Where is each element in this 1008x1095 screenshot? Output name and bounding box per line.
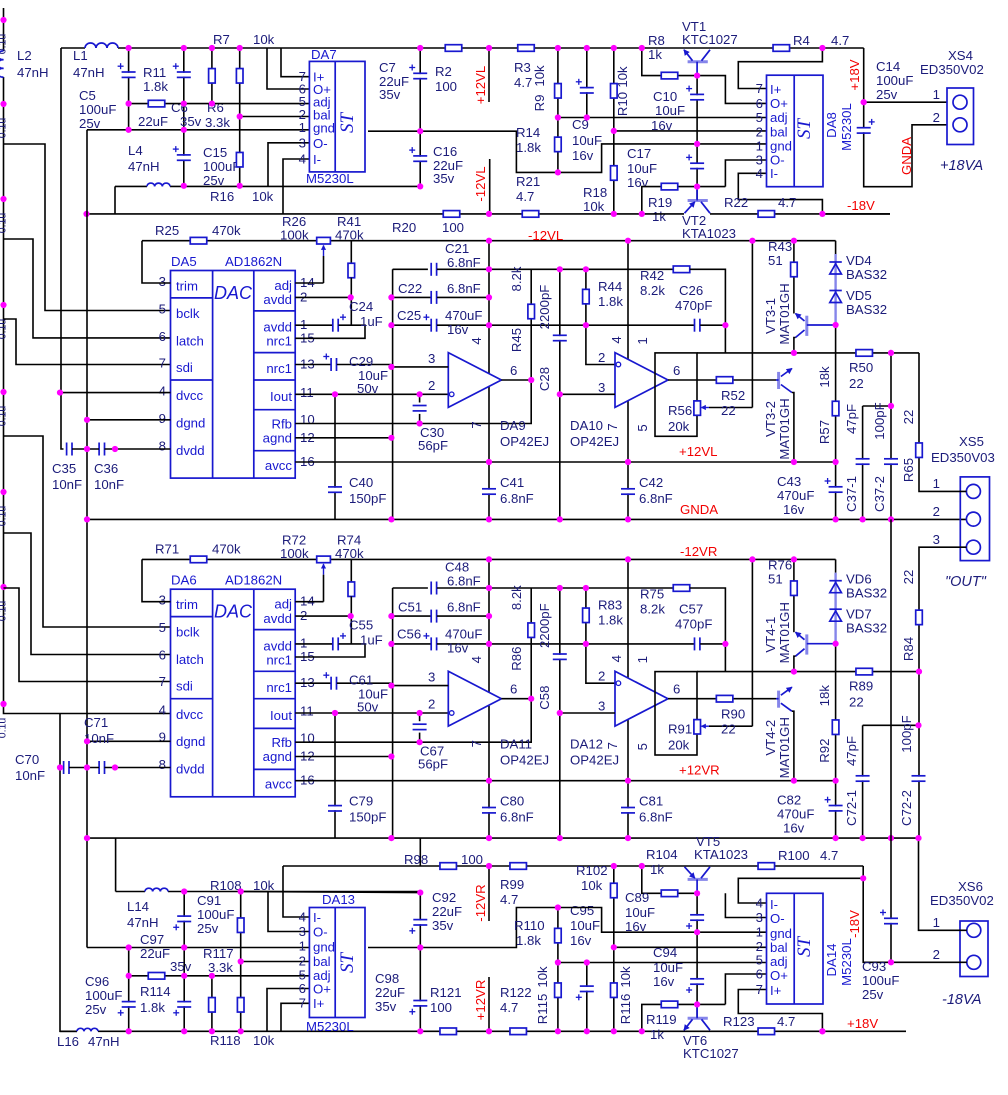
svg-text:GNDA: GNDA <box>680 502 718 517</box>
label DA6 part <box>225 573 282 588</box>
wire XS4 pin1 wire <box>864 101 947 103</box>
wire op2 output row <box>668 698 776 700</box>
label R117 label <box>203 946 234 975</box>
svg-text:4: 4 <box>469 656 484 663</box>
wire C57 right <box>700 643 725 645</box>
wire L4 to raw-V riser <box>114 186 116 214</box>
capacitor C36 <box>99 443 104 456</box>
junction dots channel DA5 <box>332 238 894 523</box>
svg-text:470k: 470k <box>212 223 241 238</box>
wire C6 C15 column <box>183 48 185 186</box>
label R9 label <box>532 65 547 111</box>
svg-text:22: 22 <box>721 722 736 737</box>
svg-text:22uF: 22uF <box>432 904 462 919</box>
svg-text:470uF: 470uF <box>445 308 482 323</box>
svg-text:C96: C96 <box>85 974 109 989</box>
svg-text:0.1u: 0.1u <box>0 601 9 622</box>
transistor VT3-2 <box>776 369 792 393</box>
svg-text:6: 6 <box>510 363 517 378</box>
capacitor C92 <box>409 920 427 934</box>
svg-text:10k: 10k <box>581 878 603 893</box>
svg-text:35v: 35v <box>433 171 455 186</box>
svg-text:R9: R9 <box>532 95 547 112</box>
wire R65 column <box>919 353 947 492</box>
wire R98 row riser <box>419 838 421 866</box>
svg-text:2: 2 <box>428 697 435 712</box>
svg-text:10uF: 10uF <box>655 103 685 118</box>
label VD7 label <box>846 607 887 636</box>
svg-text:DA14: DA14 <box>824 944 839 977</box>
wire XS5 pin1 stub <box>947 490 966 492</box>
label R99 label <box>500 877 524 907</box>
connector XS5 <box>960 477 989 561</box>
svg-text:MAT01GH: MAT01GH <box>777 398 792 459</box>
svg-text:10uF: 10uF <box>570 918 600 933</box>
capacitor C72-1 <box>856 776 870 781</box>
wire op2 V- column DA12 <box>627 559 629 677</box>
svg-text:gnd: gnd <box>770 926 792 941</box>
wire VT3-1 collector <box>794 338 796 353</box>
svg-text:R91: R91 <box>668 722 692 737</box>
wire DA5 trim wire <box>142 241 171 283</box>
label GNDA xs4 <box>899 137 914 175</box>
svg-text:ST: ST <box>794 936 815 958</box>
wire VT4-1 collector <box>794 656 796 671</box>
svg-text:1k: 1k <box>650 862 664 877</box>
svg-text:R114: R114 <box>140 984 171 999</box>
connector XS4 <box>947 88 974 145</box>
potentiometer R26 <box>317 237 331 256</box>
wire R19 row <box>642 187 726 214</box>
svg-text:5: 5 <box>756 110 763 125</box>
label C7 label <box>379 60 409 102</box>
svg-text:-12VL: -12VL <box>528 228 563 243</box>
wire latch L branch <box>4 239 171 338</box>
resistor R104 <box>661 890 678 897</box>
svg-text:C91: C91 <box>197 893 221 908</box>
svg-text:5: 5 <box>159 620 166 635</box>
svg-text:0.1u: 0.1u <box>0 34 9 55</box>
svg-text:0.1u: 0.1u <box>0 718 9 739</box>
svg-text:C92: C92 <box>432 890 456 905</box>
svg-text:R122: R122 <box>500 985 532 1000</box>
svg-text:VD7: VD7 <box>846 607 872 622</box>
label DA10 name <box>570 418 619 449</box>
svg-text:R86: R86 <box>509 647 524 671</box>
svg-text:0.1u: 0.1u <box>0 406 9 427</box>
label L1 label <box>73 48 105 80</box>
svg-text:47pF: 47pF <box>844 404 859 434</box>
label bus cap label 2 <box>0 118 9 139</box>
label C16 label <box>433 144 463 186</box>
svg-text:C56: C56 <box>397 627 421 642</box>
svg-text:R84: R84 <box>901 637 916 661</box>
wire op2 V+ column DA10 <box>627 401 629 519</box>
capacitor C80 <box>482 808 496 813</box>
svg-text:R14: R14 <box>516 125 540 140</box>
svg-text:R92: R92 <box>817 739 832 763</box>
svg-text:9: 9 <box>159 730 166 745</box>
resistor R119 <box>661 1001 678 1008</box>
svg-text:16v: 16v <box>783 502 805 517</box>
svg-text:25v: 25v <box>197 921 219 936</box>
svg-text:ST: ST <box>337 112 358 134</box>
label R90 label <box>721 707 745 737</box>
svg-text:-18VA: -18VA <box>942 992 982 1008</box>
label L14 label <box>127 899 159 930</box>
svg-text:C29: C29 <box>349 354 373 369</box>
wire bclk R branch <box>4 436 171 627</box>
wire DA14 pin3 riser <box>725 893 766 917</box>
svg-text:+18VA: +18VA <box>940 158 983 174</box>
wire R74 to avdd <box>350 596 352 644</box>
label C94 label <box>653 945 683 989</box>
svg-text:6.8nF: 6.8nF <box>447 255 481 270</box>
svg-text:4.7: 4.7 <box>778 195 796 210</box>
svg-text:C26: C26 <box>679 283 703 298</box>
resistor R41 <box>348 263 355 278</box>
svg-text:6: 6 <box>159 648 166 663</box>
wire dgnd row DA5 <box>87 419 171 421</box>
svg-text:1.8k: 1.8k <box>516 933 541 948</box>
wire R56 wiper <box>709 407 752 409</box>
svg-text:MAT01GH: MAT01GH <box>777 602 792 663</box>
resistor R25 <box>190 237 207 244</box>
svg-text:6: 6 <box>673 363 680 378</box>
svg-text:-12VR: -12VR <box>473 884 488 921</box>
wire R102 R116 column <box>613 866 615 1031</box>
svg-text:22: 22 <box>901 410 916 425</box>
svg-text:R75: R75 <box>640 587 664 602</box>
label -18V net <box>847 910 862 938</box>
wire adj row DA14 <box>558 962 767 964</box>
svg-text:OP42EJ: OP42EJ <box>570 434 619 449</box>
svg-text:AD1862N: AD1862N <box>225 254 282 269</box>
label VT2 label <box>682 213 736 241</box>
wire DA7 pin7 riser <box>281 48 309 77</box>
svg-text:10k: 10k <box>252 189 274 204</box>
wire gnd ext row <box>368 131 558 172</box>
wire adj row DA8 <box>558 117 767 119</box>
capacitor C6 <box>173 63 191 77</box>
svg-text:56pF: 56pF <box>418 438 448 453</box>
label +18V net <box>847 59 862 90</box>
svg-text:XS5: XS5 <box>959 434 984 449</box>
label R86 label <box>509 585 524 671</box>
wire C30 stub <box>419 394 421 402</box>
svg-text:C10: C10 <box>653 89 677 104</box>
label DA5 DAC <box>214 283 253 303</box>
svg-text:bal: bal <box>770 124 788 139</box>
wire +12VL stub <box>488 48 490 102</box>
svg-text:10: 10 <box>300 731 315 746</box>
svg-text:100uF: 100uF <box>876 73 913 88</box>
label R76 label <box>768 558 792 587</box>
label bus cap label 6 <box>0 506 9 527</box>
label DA9 name <box>500 418 549 449</box>
svg-text:35v: 35v <box>379 87 401 102</box>
inductor L1 <box>85 43 118 50</box>
svg-text:22: 22 <box>849 376 864 391</box>
capacitor C9 <box>576 79 594 93</box>
svg-text:4: 4 <box>469 337 484 344</box>
svg-text:DA8: DA8 <box>824 112 839 138</box>
svg-text:C89: C89 <box>625 890 649 905</box>
wire R45 column <box>530 269 532 380</box>
svg-text:avdd: avdd <box>263 611 292 626</box>
svg-text:VT4-2: VT4-2 <box>763 720 778 756</box>
svg-text:I-: I- <box>313 910 321 925</box>
svg-text:1k: 1k <box>650 1027 664 1042</box>
svg-text:bclk: bclk <box>176 625 200 640</box>
resistor R4 <box>773 45 790 52</box>
svg-text:L2: L2 <box>17 48 32 63</box>
svg-text:1.8k: 1.8k <box>516 140 541 155</box>
svg-text:KTA1023: KTA1023 <box>682 226 736 241</box>
junction dots bottom power <box>126 835 922 1034</box>
label VD5 label <box>846 288 887 317</box>
svg-text:2: 2 <box>933 504 940 519</box>
svg-text:OP42EJ: OP42EJ <box>500 753 549 768</box>
svg-text:C71: C71 <box>84 715 108 730</box>
svg-text:I-: I- <box>770 166 778 181</box>
capacitor C10 <box>686 86 704 100</box>
wire avdd pin2 row DA6 <box>295 615 351 617</box>
label L16 label <box>57 1034 120 1049</box>
resistor R74 <box>348 582 355 597</box>
label R118 label <box>210 1033 275 1048</box>
svg-text:6.8nF: 6.8nF <box>500 491 534 506</box>
wire -18V rail <box>822 213 890 215</box>
wire adj pin wire DA6 <box>295 601 323 603</box>
svg-text:sdi: sdi <box>176 360 193 375</box>
label R22 label <box>724 195 796 210</box>
wire VT5 base riser <box>642 866 697 893</box>
svg-text:25v: 25v <box>85 1002 107 1017</box>
wire C21 row right <box>437 268 675 270</box>
resistor R8 <box>661 72 678 79</box>
svg-text:R110: R110 <box>514 918 545 933</box>
svg-text:100pF: 100pF <box>872 402 887 439</box>
label XS4 pins <box>933 87 940 125</box>
label bus cap label 8 <box>0 718 9 739</box>
capacitor C93 <box>880 910 898 924</box>
capacitor C37-1 <box>856 459 870 464</box>
svg-text:5: 5 <box>635 424 650 431</box>
wire 47pF column b <box>862 725 864 838</box>
capacitor C51 <box>431 610 436 623</box>
svg-text:I+: I+ <box>313 996 325 1011</box>
label XS6 name <box>930 879 994 908</box>
wire C22 row right <box>437 296 489 298</box>
svg-text:adj: adj <box>770 954 788 969</box>
resistor R2 <box>445 45 462 52</box>
label bus cap label 3 <box>0 213 9 234</box>
label C29 label <box>349 354 388 396</box>
svg-text:R45: R45 <box>509 328 524 352</box>
svg-text:avdd: avdd <box>263 320 292 335</box>
svg-text:R18: R18 <box>583 185 607 200</box>
svg-text:bclk: bclk <box>176 306 200 321</box>
wire DA7 pin3 riser <box>268 143 309 187</box>
svg-text:gnd: gnd <box>313 940 335 955</box>
wire +12VR stub <box>488 977 490 1031</box>
resistor R20 <box>443 211 460 218</box>
wire C9 column <box>586 48 588 118</box>
wire DA13 pin3 riser <box>268 892 309 932</box>
svg-text:470pF: 470pF <box>675 298 712 313</box>
regulator DA13 box <box>309 908 365 1018</box>
svg-text:6.8nF: 6.8nF <box>500 810 534 825</box>
svg-text:C7: C7 <box>379 60 396 75</box>
svg-text:R2: R2 <box>435 64 452 79</box>
svg-text:adj: adj <box>770 110 788 125</box>
svg-text:ST: ST <box>794 118 815 140</box>
svg-text:dgnd: dgnd <box>176 734 205 749</box>
svg-text:C37-1: C37-1 <box>844 476 859 512</box>
diode VD7 <box>829 609 841 621</box>
svg-text:gnd: gnd <box>770 139 792 154</box>
resistor R52 <box>716 377 733 384</box>
svg-text:1: 1 <box>933 87 940 102</box>
capacitor C95 <box>576 986 594 1000</box>
resistor R118 <box>237 998 244 1013</box>
capacitor C43 <box>825 478 843 492</box>
svg-text:6: 6 <box>756 96 763 111</box>
svg-text:I+: I+ <box>770 983 782 998</box>
wire op1 output row <box>501 698 531 700</box>
DAC DA6 box <box>171 589 296 797</box>
svg-text:agnd: agnd <box>263 749 292 764</box>
capacitor C89 <box>686 915 704 929</box>
svg-text:+18V: +18V <box>847 59 862 90</box>
label C42 label <box>639 475 673 506</box>
label +12V net +12VL <box>679 444 718 459</box>
resistor R44 <box>583 289 590 304</box>
resistor R102 <box>611 883 618 898</box>
regulator DA8 box <box>767 75 824 187</box>
regulator DA7 box <box>309 61 365 171</box>
svg-text:51: 51 <box>768 253 783 268</box>
svg-text:7: 7 <box>299 996 306 1011</box>
label C95 label <box>570 903 600 948</box>
wire DA8 pin7 loop <box>738 48 822 89</box>
wire -12V rail -12VL <box>142 240 836 242</box>
label DA13 M5230L <box>306 1019 354 1034</box>
wire pf row b <box>863 724 919 726</box>
label op1 pin4 DA9 <box>469 337 484 344</box>
svg-text:10nF: 10nF <box>94 477 124 492</box>
resistor R116 <box>611 983 618 998</box>
wire R9 R14 column <box>557 48 559 172</box>
svg-text:C72-1: C72-1 <box>844 790 859 826</box>
diode VD5 <box>829 291 841 303</box>
svg-text:O-: O- <box>770 911 785 926</box>
capacitor C79 <box>328 806 342 811</box>
svg-text:4.7: 4.7 <box>500 1000 518 1015</box>
svg-text:R52: R52 <box>721 388 745 403</box>
label R20 label <box>392 220 464 235</box>
svg-text:adj: adj <box>274 278 292 293</box>
label R119 label <box>646 1012 677 1042</box>
label XS4 name <box>920 48 984 77</box>
label DA5 part <box>225 254 282 269</box>
svg-text:-12VL: -12VL <box>473 166 488 201</box>
wire C58 column <box>559 588 561 838</box>
label R2 label <box>435 64 457 94</box>
label op2 pin7 DA12 <box>605 742 620 749</box>
svg-text:16v: 16v <box>572 148 594 163</box>
wire C21 row <box>393 268 428 270</box>
wire R89 row <box>697 671 919 673</box>
svg-text:XS6: XS6 <box>958 879 983 894</box>
wire pin13 stub DA6 <box>295 682 331 684</box>
resistor R100 <box>758 863 775 870</box>
wire C92 C98 column <box>419 893 421 1032</box>
svg-text:5: 5 <box>635 743 650 750</box>
svg-text:1: 1 <box>933 476 940 491</box>
label R116 label <box>618 966 633 1024</box>
label C61 label <box>349 673 388 715</box>
wire C48 row right <box>437 587 675 589</box>
label -18V net <box>847 198 875 213</box>
label VD4 label <box>846 253 887 282</box>
svg-text:L4: L4 <box>128 143 143 158</box>
transistor VT6 <box>684 1004 710 1030</box>
label -12VR net <box>473 884 488 921</box>
label R75 label <box>640 587 665 617</box>
svg-text:1: 1 <box>299 120 306 135</box>
svg-text:dvcc: dvcc <box>176 388 204 403</box>
svg-text:R76: R76 <box>768 558 792 573</box>
svg-text:-18V: -18V <box>847 198 875 213</box>
label C37-1 label <box>844 404 859 512</box>
svg-text:C35: C35 <box>52 461 76 476</box>
label C91 label <box>197 893 234 936</box>
svg-text:100: 100 <box>461 852 483 867</box>
wire DA13 pin7 riser <box>281 1003 309 1031</box>
resistor R50 <box>856 350 873 357</box>
svg-text:C51: C51 <box>398 600 422 615</box>
label bus cap label 5 <box>0 406 9 427</box>
wire R7 column <box>211 48 213 104</box>
svg-text:8.2k: 8.2k <box>509 585 524 610</box>
wire C10 C17 column <box>696 76 698 201</box>
wire diode column top <box>835 559 837 572</box>
svg-text:4.7: 4.7 <box>500 892 518 907</box>
svg-text:BAS32: BAS32 <box>846 302 887 317</box>
wire +12V rail +12VL <box>295 461 835 463</box>
svg-text:10uF: 10uF <box>653 960 683 975</box>
svg-text:avcc: avcc <box>265 777 293 792</box>
label C51 label <box>398 600 481 615</box>
wire GNDA row DA6 <box>87 837 919 839</box>
svg-text:22: 22 <box>721 403 736 418</box>
svg-text:4: 4 <box>756 896 763 911</box>
svg-text:R8: R8 <box>648 33 665 48</box>
svg-text:3: 3 <box>428 670 435 685</box>
svg-text:47nH: 47nH <box>73 65 105 80</box>
svg-text:100uF: 100uF <box>85 988 122 1003</box>
svg-text:R56: R56 <box>668 403 692 418</box>
svg-text:C81: C81 <box>639 794 663 809</box>
svg-text:1: 1 <box>635 656 650 663</box>
wire op1 V+ column DA9 <box>488 387 490 519</box>
wire -12V rail -12VR <box>142 558 836 560</box>
label -12V net -12VL <box>528 228 563 243</box>
label R6 label <box>205 100 230 130</box>
wire R92 column <box>835 644 837 781</box>
